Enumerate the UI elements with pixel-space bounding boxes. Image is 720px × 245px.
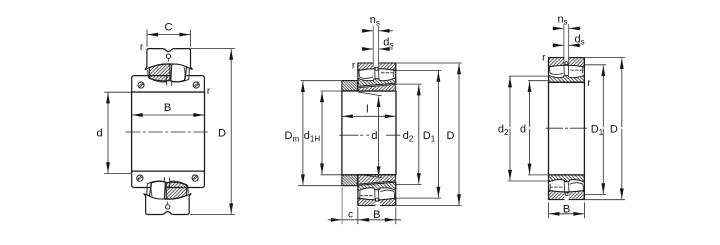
outer ring section (hatched): [358, 63, 396, 70]
bore cylinder rect: [549, 82, 585, 175]
lubrication hole lines through OD: [564, 24, 569, 64]
svg-text:B: B: [164, 102, 171, 114]
inner ring section (hatched): [549, 75, 585, 82]
svg-text:d: d: [520, 124, 526, 136]
dimension D: [585, 57, 625, 59]
cage bars: [564, 65, 583, 75]
lubrication hole slot: [374, 62, 379, 67]
dimension d (vertical through bore): [378, 97, 380, 120]
taper reference line bottom: [358, 174, 381, 177]
dimension d_1H: [321, 90, 342, 92]
dimension n_s: [553, 27, 563, 29]
dimension D_1: [585, 64, 606, 66]
dimension D (right): [191, 48, 235, 50]
roller (behind, plain): [171, 64, 187, 82]
dimension d_s: [362, 48, 372, 50]
dimension C: [146, 30, 148, 47]
inner ring flange block: [132, 76, 205, 92]
dimension c (sleeve protrusion, bottom): [341, 188, 343, 224]
svg-text:d: d: [371, 130, 377, 142]
lubrication hole slot: [564, 57, 568, 62]
centre line (dash-dot): [340, 134, 400, 136]
dimension B (bearing width, bottom): [357, 207, 359, 224]
svg-text:B: B: [563, 203, 570, 215]
clamp screw right: [193, 82, 199, 88]
dimension B (inside rect): [132, 114, 168, 116]
inner ring sleeve cylinder (rect B x d): [132, 92, 205, 174]
svg-text:d: d: [96, 127, 102, 139]
dimension d_s: [553, 44, 563, 46]
dimension D: [396, 62, 462, 64]
centre line (dash-dot): [546, 127, 587, 129]
dimension n_s: [362, 30, 372, 32]
lubrication hole: [166, 54, 170, 58]
shaft / sleeve body rect: [342, 91, 396, 175]
locknut bottom: [342, 175, 358, 186]
dimension d_2 (right of bearing): [396, 83, 422, 85]
dimension d_2: [509, 75, 548, 77]
locknut top: [342, 81, 358, 91]
svg-text:l: l: [366, 103, 368, 115]
ring side faces: [549, 58, 585, 83]
adapter sleeve top (hatched wedge): [358, 84, 396, 91]
inner raceway seats and guide rib: [150, 76, 189, 85]
outer ring (with lubrication groove notch): [145, 49, 192, 70]
rollers (unsectioned): [360, 77, 373, 78]
svg-text:B: B: [373, 209, 380, 221]
inner ring section (hatched, tapered bore): [358, 78, 396, 87]
dimension d: [528, 80, 548, 82]
rollers (unsectioned): [550, 73, 563, 74]
lubrication hole lines through OD: [373, 26, 378, 66]
bearing with tapered bore: top section: [358, 62, 396, 86]
cage bars: [148, 69, 190, 79]
bottom section (rotated copy): [549, 175, 585, 200]
bearing cartridge bottom section (rotated copy): [132, 171, 205, 214]
bearing top section: [549, 57, 585, 82]
svg-text:c: c: [348, 209, 353, 220]
cage bars: [375, 68, 394, 80]
svg-text:D: D: [447, 130, 455, 142]
adapter sleeve bottom (hatched wedge): [358, 175, 396, 185]
dimension B (bottom): [548, 203, 550, 218]
roller (sectioned, hatched): [149, 64, 170, 81]
svg-text:C: C: [165, 22, 173, 34]
clamp screw left: [138, 82, 144, 88]
taper reference line top: [358, 92, 381, 96]
ring side faces: [358, 63, 396, 86]
dimension D_1: [396, 69, 441, 71]
svg-text:D: D: [610, 124, 618, 136]
bearing cartridge top section: [132, 49, 205, 92]
svg-text:D: D: [218, 127, 226, 139]
dimension D_m: [301, 80, 342, 82]
bottom section of bearing (rotated copy): [358, 182, 396, 206]
dimension d (left): [105, 91, 132, 93]
dimension l (sleeve length): [343, 115, 369, 117]
centre line (dash-dot): [126, 131, 211, 133]
outer ring section (hatched): [549, 58, 585, 67]
